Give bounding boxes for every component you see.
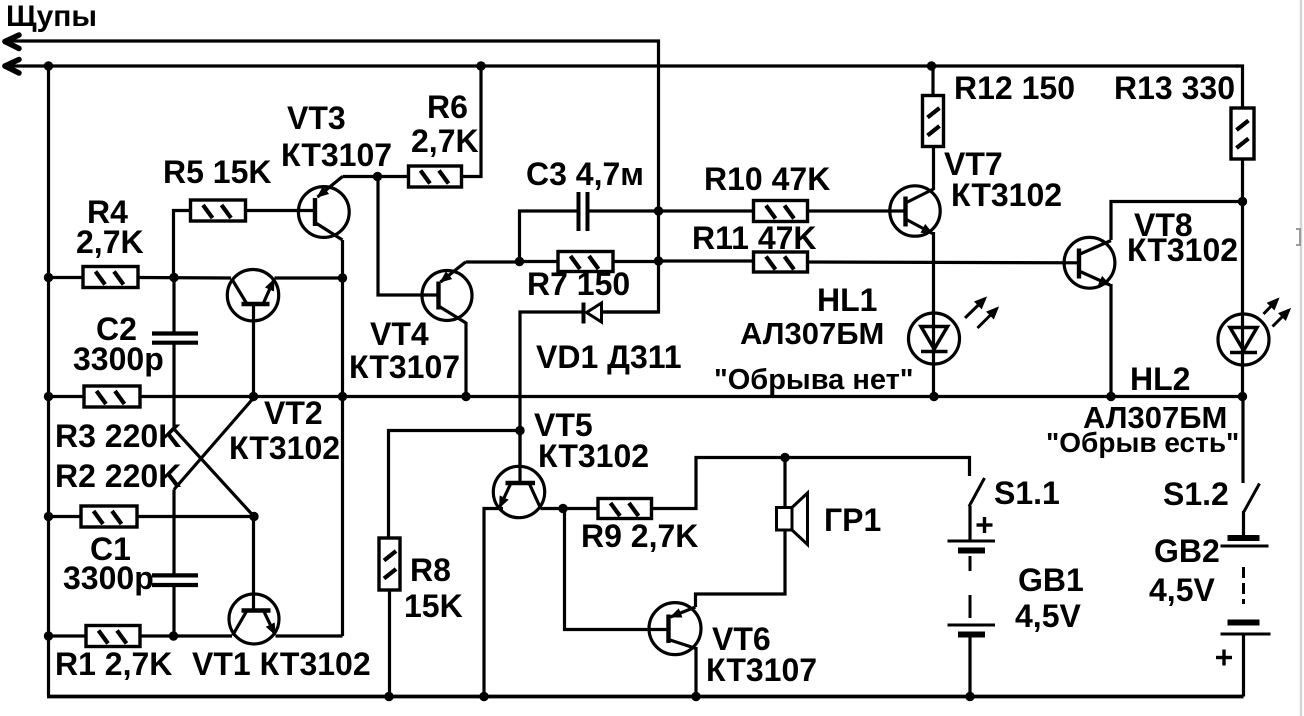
wire R11 right to VT8 base — [808, 260, 1080, 264]
svg-text:2,7K: 2,7K — [411, 123, 479, 159]
resistor R4 2,7K — [83, 267, 138, 288]
transistor VT1 KT3102 (NPN, base up) — [229, 594, 279, 644]
LED HL1 AL307BM — [909, 299, 998, 365]
battery GB2 4,5V — [1216, 538, 1271, 666]
resistor R12 150 (vertical) — [923, 96, 944, 147]
wire VT2 emitter row — [275, 276, 343, 279]
node VT4 collector rail junction — [461, 392, 470, 401]
svg-text:R11 47K: R11 47K — [692, 220, 817, 256]
node C1-R1 junction — [169, 631, 178, 640]
wire VT4 base feed — [378, 177, 439, 296]
svg-text:"Обрыв есть": "Обрыв есть" — [1046, 427, 1239, 458]
svg-text:КТ3102: КТ3102 — [951, 177, 1062, 213]
wire C2 bottom to diagonal — [172, 344, 175, 429]
svg-text:HL2: HL2 — [1130, 361, 1190, 397]
node R1 row left junction — [44, 631, 53, 640]
node GB1 rail junction — [965, 692, 974, 701]
svg-text:3300p: 3300p — [63, 560, 154, 596]
resistor R5 15K — [191, 200, 246, 221]
node C3-R7 left junction — [515, 257, 524, 266]
wire VT5 base column — [518, 431, 521, 484]
node VT8 collector junction — [1238, 197, 1247, 206]
wire VT7 emitter to HL1 — [932, 232, 935, 397]
wire VT6 base branch — [565, 509, 669, 630]
switch S1.2 — [1244, 484, 1260, 512]
svg-text:S1.1: S1.1 — [994, 475, 1060, 511]
transistor VT3 KT3107 (PNP) — [298, 177, 349, 241]
svg-text:VT3: VT3 — [287, 100, 346, 136]
wire R1 row right to VT1 — [140, 634, 232, 637]
svg-text:HL1: HL1 — [817, 282, 877, 318]
wire R11 left lead — [659, 259, 754, 262]
wire VD1 left leg down to VT5 — [520, 312, 584, 467]
svg-text:4,5V: 4,5V — [1149, 572, 1215, 608]
wire R7 right lead — [613, 260, 659, 263]
wire R8 branch — [389, 431, 521, 539]
wire VT8 collector up and to R13 column — [1111, 202, 1243, 241]
svg-text:15K: 15K — [404, 588, 463, 624]
diode VD1 D311 — [584, 303, 602, 324]
resistor R11 47K — [754, 252, 808, 272]
svg-text:R9 2,7K: R9 2,7K — [581, 518, 698, 554]
wire long rail R3 to HL2 column — [140, 395, 1243, 398]
svg-text:R5 15K: R5 15K — [163, 154, 272, 190]
wire R4 row right to VT2 collector — [138, 276, 231, 280]
capacitor C3 4,7m (vertical plates) — [579, 192, 588, 231]
node R4 row left junction — [44, 273, 53, 282]
wire probe line 2 — [6, 64, 1238, 67]
node VT3-R6 junction — [373, 172, 382, 181]
wire R5 left drop to R4 row — [174, 211, 191, 278]
svg-text:КТ3107: КТ3107 — [706, 652, 817, 688]
node VT5 emitter rail junction — [479, 692, 488, 701]
resistor R6 2,7K — [409, 166, 462, 187]
resistor R8 15K (vertical) — [379, 538, 400, 590]
node VT2 base rail junction — [249, 392, 258, 401]
svg-text:КТ3102: КТ3102 — [229, 430, 340, 466]
node VT1 base junction — [249, 512, 258, 521]
node VT3 column rail junction — [338, 392, 347, 401]
wire VT7 collector to R12 — [932, 146, 935, 190]
resistor R7 150 — [558, 252, 613, 272]
wire S1.2 to GB2 — [1242, 511, 1245, 538]
node VT2 emitter junction — [338, 273, 347, 282]
wire speaker top feed — [783, 458, 786, 509]
wire VT4 emitter to R7 row — [466, 260, 520, 263]
node speaker top junction — [780, 453, 789, 462]
transistor VT2 KT3102 (NPN, base down) — [227, 270, 278, 321]
svg-text:R13 330: R13 330 — [1114, 70, 1235, 106]
wire R13 feed corner — [1236, 66, 1243, 108]
svg-text:2,7K: 2,7K — [76, 224, 144, 260]
wire R2 row right — [137, 515, 254, 518]
wire VD1 anode lead — [602, 310, 659, 313]
wire S1.2 feed — [1241, 397, 1244, 484]
wire VT2 base drop — [252, 304, 255, 397]
probe arrow top — [5, 35, 19, 49]
wire VT5 collector to R9 — [541, 507, 599, 510]
svg-text:ГР1: ГР1 — [824, 502, 881, 538]
svg-text:R1 2,7K: R1 2,7K — [55, 646, 172, 682]
svg-text:R12 150: R12 150 — [954, 70, 1075, 106]
wire R10 right to VT7 base — [808, 209, 906, 212]
wire R6 right up to line2 — [462, 66, 482, 177]
wire C1 bottom to R1 row — [172, 586, 175, 636]
wire VT1 emitter row — [276, 634, 343, 637]
wire cross-couple diagonal A — [174, 398, 254, 490]
wire VT5 emitter left drop to bottom rail — [484, 509, 503, 697]
wire C1 top feed — [172, 490, 175, 575]
transistor VT6 KT3107 (PNP) — [649, 603, 701, 655]
svg-text:4,5V: 4,5V — [1015, 598, 1081, 634]
speaker GR1 — [777, 493, 808, 545]
switch S1.1 — [969, 478, 985, 507]
svg-text:КТ3107: КТ3107 — [281, 137, 392, 173]
node R8 bottom rail junction — [384, 692, 393, 701]
wire R5 right to VT3 base — [246, 209, 316, 212]
wire C3 right lead — [590, 209, 659, 212]
wire R1 row left — [49, 634, 87, 637]
wire VT1 base drop — [252, 517, 255, 609]
svg-text:GB1: GB1 — [1018, 562, 1084, 598]
capacitor C2 3300p — [152, 334, 198, 343]
node VT6 collector rail junction — [691, 692, 700, 701]
resistor R3 220K — [84, 386, 140, 407]
probe arrow bottom — [5, 60, 19, 74]
scan edge artifact right — [1300, 0, 1303, 716]
wire R7 left lead — [520, 260, 559, 263]
resistor R2 220K — [81, 506, 137, 527]
transistor VT5 KT3102 (NPN, base up) — [493, 466, 544, 517]
wire GB1 to bottom rail — [968, 635, 971, 697]
node R9 left junction — [558, 504, 567, 513]
wire R10 left lead — [659, 209, 754, 212]
svg-text:КТ3102: КТ3102 — [1127, 232, 1238, 268]
wire bottom rail — [47, 695, 1244, 699]
svg-text:КТ3102: КТ3102 — [538, 438, 649, 474]
svg-text:R6: R6 — [427, 89, 468, 125]
svg-text:Щупы: Щупы — [6, 0, 97, 33]
node C3-R10 junction — [654, 206, 663, 215]
node HL2 rail junction — [1238, 392, 1247, 401]
svg-text:R10 47K: R10 47K — [704, 161, 830, 197]
svg-text:GB2: GB2 — [1154, 533, 1220, 569]
wire VT6 collector to bottom rail — [694, 647, 697, 697]
capacitor C1 3300p — [152, 575, 198, 585]
wire VT4 collector down to rail — [464, 322, 467, 397]
wire VT3 emitter to R6 junction — [343, 175, 409, 178]
svg-text:S1.2: S1.2 — [1163, 476, 1229, 512]
svg-text:"Обрыва нет": "Обрыва нет" — [714, 364, 914, 396]
node R3 row left junction — [44, 392, 53, 401]
wire R13 bottom to HL2 — [1241, 159, 1244, 397]
node probes junction on line 2 — [44, 61, 53, 70]
resistor R10 47K — [754, 201, 808, 222]
resistor R1 2,7K — [86, 626, 140, 647]
wire probe line 1 (top) — [6, 41, 659, 312]
transistor VT7 KT3102 (NPN) — [890, 186, 940, 236]
svg-text:R8: R8 — [410, 552, 451, 588]
svg-text:АЛ307БМ: АЛ307БМ — [740, 316, 884, 351]
svg-text:КТ3107: КТ3107 — [349, 349, 460, 385]
svg-text:3300p: 3300p — [73, 341, 164, 377]
wire R4 row left — [49, 276, 84, 279]
transistor VT8 KT3102 (NPN) — [1064, 237, 1115, 288]
wire VT8 emitter to rail — [1109, 284, 1112, 397]
svg-text:VT4: VT4 — [370, 316, 429, 352]
wire speaker bottom to VT6 emitter — [696, 531, 786, 608]
node HL1 rail junction — [929, 392, 938, 401]
svg-text:R2 220K: R2 220K — [55, 458, 181, 494]
wire C3 left leg — [520, 211, 577, 262]
wire R9 right up to speaker row — [652, 458, 970, 509]
wire R12 top feed — [931, 66, 934, 96]
LED HL2 AL307BM — [1218, 300, 1289, 366]
wire cross-couple diagonal B — [174, 429, 254, 517]
svg-text:С3 4,7м: С3 4,7м — [526, 156, 644, 192]
transistor VT4 KT3107 (PNP) — [422, 262, 472, 323]
wire R2 row left — [49, 515, 82, 518]
wire R8 bottom — [388, 590, 391, 697]
node VT5 base branch junction — [515, 426, 524, 435]
wire C2 top feed — [172, 278, 175, 333]
battery GB1 4,5V — [948, 517, 996, 635]
svg-text:R7 150: R7 150 — [527, 266, 630, 302]
wire left rail — [47, 66, 50, 695]
resistor R13 330 (vertical) — [1231, 108, 1254, 159]
svg-text:VT2: VT2 — [264, 395, 323, 431]
node VT8 emitter rail junction — [1106, 392, 1115, 401]
svg-text:VD1 Д311: VD1 Д311 — [536, 339, 682, 375]
node R4-R5 junction — [169, 273, 178, 282]
node R7-R11 junction — [654, 256, 663, 265]
wire VT3 collector column down to rail and VT1 emitter — [341, 240, 344, 636]
wire S1.1 to GB1 — [968, 506, 971, 541]
wire GB2 to bottom rail — [1242, 634, 1245, 697]
wire R3 row left — [49, 395, 85, 398]
svg-text:R3 220K: R3 220K — [55, 418, 181, 454]
resistor R9 2,7K — [598, 499, 652, 519]
node R12 feed junction — [927, 61, 936, 70]
svg-text:VT1 КТ3102: VT1 КТ3102 — [192, 646, 371, 682]
node R2 row left junction — [44, 512, 53, 521]
node R6 top junction — [476, 61, 485, 70]
